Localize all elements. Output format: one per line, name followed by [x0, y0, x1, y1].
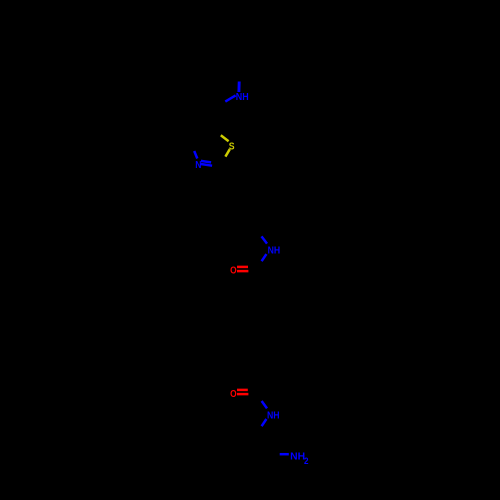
wire CH2-NH2 (horizontal, half-bond at N)	[280, 453, 289, 456]
wire N3=C2 double bond inner line	[201, 161, 211, 163]
wire N-CH2 amide2 (half-bond at N)	[262, 419, 267, 426]
wire C5-S (thiazole, half-bond at S)	[221, 135, 229, 141]
svg-text:NH: NH	[267, 409, 280, 421]
wire C=O amide2 double bond bottom line	[237, 393, 248, 396]
wire S-C2 (thiazole, half-bond at S)	[225, 149, 229, 156]
svg-text:NH: NH	[290, 451, 305, 463]
svg-text:NH: NH	[236, 91, 249, 103]
wire C=O amide1 double bond top line	[237, 266, 248, 269]
wire C=O amide2 double bond top line	[237, 389, 248, 392]
wire CH-N amide1 (half-bond at N)	[262, 236, 268, 243]
svg-text:O: O	[230, 388, 237, 400]
wire N-C(=O) amide1 (half-bond at N)	[262, 254, 267, 261]
svg-text:2: 2	[304, 456, 309, 466]
svg-text:NH: NH	[268, 244, 281, 256]
wire C(=O)-N amide2 (half-bond at N)	[262, 401, 267, 408]
wire CH3-N (vertical, half-bond at N)	[237, 82, 240, 93]
wire C=O amide1 double bond bottom line	[237, 270, 248, 273]
wire C4-N3 (thiazole, half-bond at N)	[194, 151, 197, 159]
wire N-CH (diagonal, half-bond at N)	[225, 95, 235, 101]
svg-text:O: O	[230, 264, 237, 276]
wire N3=C2 double bond main line	[200, 164, 212, 166]
